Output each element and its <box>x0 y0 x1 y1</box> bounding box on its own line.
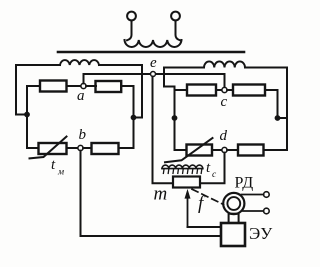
svg-text:c: c <box>212 170 217 180</box>
svg-text:d: d <box>220 128 228 144</box>
svg-text:ЭУ: ЭУ <box>249 224 273 243</box>
svg-text:м: м <box>57 168 64 178</box>
svg-text:t: t <box>51 157 56 173</box>
svg-text:e: e <box>150 55 157 71</box>
svg-text:РД: РД <box>235 175 254 192</box>
svg-text:t: t <box>206 160 211 176</box>
svg-text:c: c <box>221 94 228 110</box>
svg-text:b: b <box>79 127 87 143</box>
svg-text:a: a <box>77 88 85 104</box>
svg-text:m: m <box>154 184 168 205</box>
